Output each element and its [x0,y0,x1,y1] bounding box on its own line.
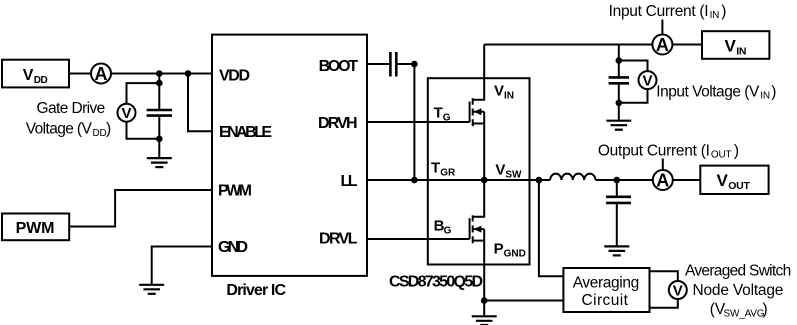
node junction output cap [614,177,621,184]
svg-text:V: V [495,162,505,179]
pin label TG [434,104,451,123]
svg-text:T: T [434,104,443,121]
svg-text:A: A [656,35,669,55]
svg-text:DRVH: DRVH [318,115,358,132]
wire VIN rail top [484,44,652,46]
svg-text:OUT: OUT [711,150,732,161]
source PWM box [2,214,69,241]
wire boot cap to corner [396,63,414,65]
label Averaging Circuit [573,274,640,309]
svg-text:): ) [734,142,739,159]
wire BOOT to boot capacitor [367,63,390,65]
pin label VSW [495,162,522,181]
node junction VDD/enable [185,70,192,77]
wire voltmeter bottom loop [127,122,160,139]
transistor Q1 channel segments [472,98,474,126]
svg-text:V: V [642,72,652,89]
power block CSD87350Q5D box [428,78,530,264]
wire PWM box to PWM pin [69,190,212,227]
node junction boot corner [411,61,418,68]
transistor Q2 low-side MOSFET gate bar [469,218,471,239]
svg-text:IN: IN [504,90,514,101]
wire boot vertical to LL [413,64,415,180]
capacitor C1 VDD bypass [147,110,172,116]
wire input voltmeter bottom loop [619,89,648,103]
wire output cap branch upper [616,180,618,197]
voltmeter V input voltage [639,71,657,89]
label Averaged Switch Node Voltage [685,263,791,320]
transistor Q2 source stub [473,240,485,242]
ammeter A output current [653,170,673,190]
wire ENABLE branch [188,74,212,132]
svg-text:VDD: VDD [219,68,250,85]
svg-text:Driver IC: Driver IC [226,282,286,299]
svg-text:G: G [444,225,452,236]
node junction boot/LL [411,177,418,184]
svg-text:): ) [721,3,726,20]
wire VDD box to ammeter [69,73,91,75]
pin label BOOT [319,58,359,75]
node junction voltmeter top [156,80,163,87]
svg-text:P: P [494,240,504,257]
node junction VSW/FET [481,177,488,184]
ground G1 (VDD bypass) [147,158,172,167]
load VOUT box [700,166,768,194]
wire ammeter to VDD pin [111,73,212,75]
svg-text:A: A [656,170,669,190]
label VIN box text [725,37,747,58]
ground G4 (output cap) [604,246,629,255]
wire cap branch lower [158,116,160,159]
svg-text:SW: SW [505,170,522,181]
svg-text:LL: LL [341,173,358,190]
wire input voltmeter top loop [619,61,648,72]
svg-text:Input Current (I: Input Current (I [609,3,709,20]
svg-text:GND: GND [218,239,248,256]
pin label DRVL [319,231,358,248]
svg-text:BOOT: BOOT [319,58,359,75]
svg-text:V: V [717,171,729,190]
wire inductor to ammeter [596,179,653,181]
node junction voltmeter bottom [156,136,163,143]
transistor Q1 source stub [473,123,485,125]
svg-text:Gate Drive: Gate Drive [37,100,106,117]
svg-text:): ) [771,83,776,100]
svg-text:V: V [494,82,504,99]
transistor Q1 drain stub [473,45,485,100]
label PWM box text [16,220,55,237]
pin label DRVH [318,115,358,132]
inductor L1 [550,174,595,180]
svg-text:IN: IN [736,45,746,57]
svg-text:GR: GR [440,168,456,179]
svg-text:GND: GND [504,248,526,259]
svg-text:): ) [106,121,111,138]
transistor Q2 channel segments [472,215,474,243]
svg-text:Averaging: Averaging [573,274,640,291]
pin label GND [218,239,248,256]
capacitor C2 boot [390,52,396,77]
transistor Q1 body arrow [474,108,482,115]
capacitor C4 output [606,197,631,203]
pin label PGND [494,240,526,259]
ground G2 (driver GND) [139,285,164,294]
wire PGND to averaging circuit [484,300,563,302]
label VOUT box text [717,171,751,192]
wire GND pin to ground [152,247,212,285]
wire Q2 source to ground [483,229,485,316]
pin label VIN [494,82,514,101]
voltmeter V averaged switch node [669,281,687,299]
wire VSW to averaging circuit [539,180,564,276]
label VDD box text [23,67,48,86]
svg-text:OUT: OUT [728,180,750,192]
averaging circuit box [563,268,649,312]
wire DRVH to TG gate [367,121,470,123]
label Input Current [609,3,727,21]
wire leader input current [661,20,663,35]
svg-text:Node Voltage: Node Voltage [693,282,784,299]
label Driver IC [226,282,286,299]
ammeter A input current [652,35,672,55]
wire LL / TGR / VSW rail [367,179,550,181]
label CSD87350Q5D [389,274,483,291]
voltmeter V (gate drive voltage) [118,104,136,122]
ground G3 (input cap) [606,121,631,130]
svg-text:Input Voltage (V: Input Voltage (V [656,83,760,100]
svg-text:SW_AVG: SW_AVG [724,309,765,320]
transistor Q1 high-side MOSFET gate bar [469,102,471,123]
svg-text:V: V [23,67,34,84]
wire averaging to voltmeter bottom [650,299,678,308]
wire averaging to voltmeter top [650,271,678,281]
pin label VDD [219,68,250,85]
svg-text:IN: IN [760,91,770,102]
svg-text:G: G [443,112,451,123]
svg-text:DRVL: DRVL [319,231,358,248]
pin label ENABLE [219,124,272,141]
svg-text:A: A [95,64,108,84]
svg-text:ENABLE: ENABLE [219,124,272,141]
source VDD box [2,60,69,88]
transistor Q1 body stub [473,111,485,113]
wire DRVL to BG gate [367,238,470,240]
label Input Voltage [656,83,776,101]
node junction VSW/averaging [536,177,543,184]
ammeter A (gate drive current) [91,64,111,84]
driver IC U1 box [212,35,367,276]
wire ammeter to VOUT box [673,179,701,181]
transistor Q2 body stub [473,228,485,230]
node junction VDD/cap [156,70,163,77]
pin label BG [434,217,452,236]
svg-text:Output Current (I: Output Current (I [598,142,710,159]
svg-text:IN: IN [710,10,720,21]
svg-text:V: V [121,105,131,122]
node junction PGND [481,297,488,304]
svg-text:Voltage (V: Voltage (V [26,121,93,138]
wire input cap branch upper [618,45,620,78]
wire Q1 source to VSW [483,112,485,180]
svg-text:V: V [725,37,737,56]
wire ammeter to VIN box [672,44,702,46]
label Gate Drive Voltage [26,100,111,139]
wire cap branch upper [158,74,160,111]
load VIN box [702,31,769,59]
wire voltmeter top loop [127,83,160,104]
svg-text:PWM: PWM [16,220,55,237]
transistor Q2 drain stub [473,180,485,217]
svg-text:PWM: PWM [218,183,252,200]
pin label PWM [218,183,252,200]
pin label LL [341,173,358,190]
svg-text:CSD87350Q5D: CSD87350Q5D [389,274,483,291]
node junction input voltmeter bottom [616,100,623,107]
ground G5 (PGND) [472,316,497,325]
svg-text:DD: DD [93,128,107,139]
svg-text:T: T [431,160,440,177]
svg-text:Averaged Switch: Averaged Switch [685,263,791,280]
svg-text:DD: DD [34,75,48,86]
wire output cap branch lower [616,203,618,247]
capacitor C3 input [609,77,629,83]
svg-text:): ) [763,301,768,318]
pin label TGR [431,160,456,179]
label Output Current [598,142,739,160]
wire input cap branch lower [618,83,620,120]
node junction input voltmeter top [616,57,623,64]
svg-text:V: V [673,282,683,299]
transistor Q2 body arrow [474,226,482,233]
wire leader output current [662,159,664,171]
svg-text:Circuit: Circuit [582,292,629,309]
